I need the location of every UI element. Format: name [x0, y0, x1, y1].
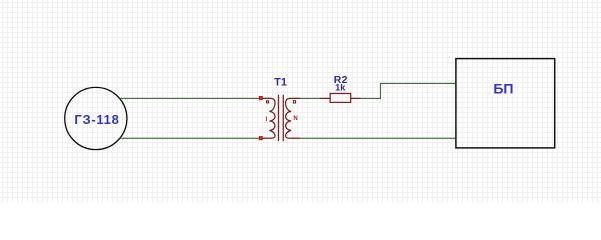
svg-text:ГЗ-118: ГЗ-118: [74, 112, 119, 127]
svg-text:T1: T1: [274, 76, 287, 88]
wire: resistor R2 to БП box with jog up: [361, 83, 456, 98]
svg-text:БП: БП: [493, 81, 513, 97]
wire bottom: generator to transformer pin 2: [120, 137, 259, 139]
transformer T1 primary winding I: [263, 98, 276, 138]
svg-text:1k: 1k: [335, 83, 346, 93]
power supply box БП: [456, 59, 555, 148]
generator circle ГЗ-118: [65, 87, 127, 149]
svg-text:N: N: [293, 116, 297, 122]
junction square pin 1: [259, 96, 263, 100]
transformer T1 secondary winding N: [286, 98, 300, 138]
wire: transformer pin 4 to БП box: [300, 137, 455, 139]
junction square pin 2: [259, 136, 263, 140]
wire: transformer pin 3 to resistor R2: [300, 97, 320, 99]
winding start marker primary: [267, 101, 269, 103]
winding start marker secondary: [293, 101, 295, 103]
transformer core line right: [282, 95, 284, 141]
resistor R2 lead left: [320, 97, 330, 99]
transformer core line left: [278, 95, 280, 141]
resistor R2 body: [330, 94, 351, 103]
svg-text:I: I: [266, 116, 268, 123]
wire top: generator to transformer pin 1: [120, 97, 259, 99]
resistor R2 lead right: [351, 97, 361, 99]
